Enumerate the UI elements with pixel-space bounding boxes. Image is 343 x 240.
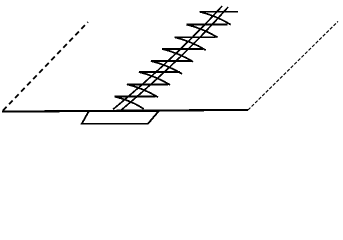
coil turn 3 rung — [175, 36, 216, 38]
coil turn 2 rung — [186, 24, 227, 26]
pole rail A (left) — [113, 6, 222, 110]
coil turn 8 return stroke — [115, 97, 144, 109]
coil turn 3 return stroke — [175, 37, 206, 50]
coil turn 8 rung — [115, 96, 156, 98]
coil turn 5 return stroke — [151, 61, 182, 74]
coil turn 2 return stroke — [186, 25, 217, 38]
board parallelogram at ladder foot — [82, 111, 159, 124]
ground front edge line — [2, 110, 248, 112]
coil turn 4 rung — [162, 48, 203, 50]
coil turn 7 rung — [127, 83, 168, 85]
coil turn 1 rung — [200, 11, 239, 13]
coil turn 4 return stroke — [162, 49, 193, 62]
pole rail B (right) — [121, 7, 228, 110]
coil turn 1 return stroke — [200, 12, 231, 25]
left dashed receding edge — [3, 22, 88, 111]
coil turn 7 return stroke — [127, 84, 158, 97]
coil turn 6 return stroke — [139, 72, 170, 85]
coil turn 5 rung — [151, 60, 192, 62]
coil turn 6 rung — [139, 71, 180, 73]
right dashed receding edge — [248, 21, 338, 110]
